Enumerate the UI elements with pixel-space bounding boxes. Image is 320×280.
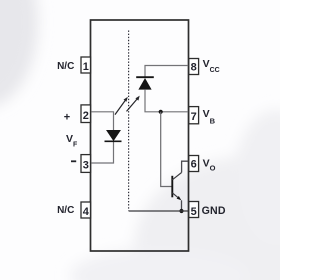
wire LED cathode to pin3: [91, 141, 114, 163]
svg-text:7: 7: [191, 111, 197, 123]
svg-text:+: +: [64, 111, 70, 123]
light arrow 2: [127, 96, 140, 112]
pin 1 box: [81, 57, 91, 73]
wire pin8 Vcc to photodiode cathode: [145, 66, 189, 77]
svg-text:N/C: N/C: [57, 205, 74, 216]
wire pin2 to LED anode: [91, 112, 114, 131]
wire collector to pin6: [182, 161, 189, 172]
pin 3 box: [81, 155, 91, 173]
svg-text:4: 4: [83, 206, 90, 218]
svg-text:8: 8: [191, 62, 197, 74]
svg-text:2: 2: [83, 110, 89, 122]
label - (pin 3): [71, 160, 76, 162]
wire base junction to transistor base: [161, 112, 172, 187]
LED D1: [105, 130, 122, 141]
wire emitter to GND rail: [181, 200, 183, 211]
svg-text:6: 6: [191, 159, 197, 171]
wire GND rail (shield to pin5): [129, 210, 189, 212]
svg-text:3: 3: [83, 159, 89, 171]
pin 7 box: [189, 107, 199, 124]
photodiode D2: [136, 77, 154, 89]
light arrow 1: [115, 97, 128, 115]
pin 6 box: [189, 156, 199, 172]
transistor Q1: [172, 173, 181, 201]
svg-text:GND: GND: [202, 205, 226, 217]
wire photodiode anode to pin7: [145, 89, 189, 112]
node: emitter/GND junction dot: [179, 209, 183, 213]
pin 5 box: [189, 202, 199, 218]
pin 2 box: [81, 105, 91, 123]
pin 8 box: [189, 59, 199, 75]
node: base junction dot: [159, 110, 163, 114]
IC body U1: [91, 20, 189, 251]
svg-text:1: 1: [83, 61, 89, 73]
isolation shield (dotted): [128, 31, 130, 211]
svg-text:N/C: N/C: [57, 61, 74, 72]
pin 4 box: [81, 202, 91, 218]
svg-text:5: 5: [191, 206, 197, 218]
